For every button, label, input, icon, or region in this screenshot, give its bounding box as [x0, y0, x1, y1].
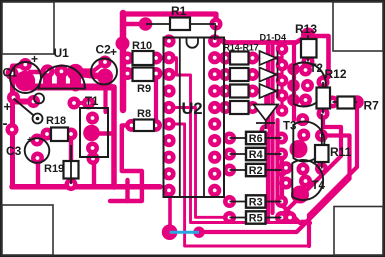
lead R3 right [266, 201, 282, 203]
lead R7 [333, 101, 358, 103]
svg-text:R10: R10 [132, 40, 152, 52]
pad U2 pin left 6 [162, 117, 175, 130]
pad U2 pin right 1 [208, 34, 221, 47]
wire R1 left pad to vertical [123, 22, 146, 27]
pad chord column a [287, 63, 300, 76]
svg-text:R12: R12 [325, 67, 347, 81]
wire top rail corner down (vertical x=123) [120, 13, 127, 110]
pad R9 right [150, 67, 163, 80]
wire R2-R6 vertical a [266, 46, 270, 222]
pad T1 pin 3 [86, 142, 99, 155]
wire R9-R8 vertical link [154, 74, 158, 126]
wire C3 bottom pad down [36, 158, 40, 186]
corner cutout top-left [2, 2, 54, 54]
pad R4 left [223, 148, 236, 161]
pad R5 left [223, 211, 236, 224]
svg-text:-: - [3, 115, 8, 132]
wire U1 pad1 stub [43, 71, 52, 86]
resistor R2 [246, 164, 266, 176]
pad U2 pin right 8 [208, 151, 221, 164]
pad T1 pin 1 [86, 112, 99, 125]
svg-text:U2: U2 [182, 100, 203, 118]
svg-text:+: + [27, 135, 33, 146]
wire diode row 3 [252, 89, 280, 93]
pad T3 pin 3 [290, 140, 308, 158]
wire U2 internal 3 [169, 124, 309, 246]
lead R12 [322, 82, 324, 114]
wire vertical to R9 left pad [123, 71, 128, 75]
svg-text:R7: R7 [364, 99, 380, 113]
svg-text:T3: T3 [283, 121, 296, 133]
svg-text:C2: C2 [96, 43, 112, 57]
wire diode via column vertical [280, 49, 283, 111]
pad R8 right [149, 119, 162, 132]
pad R5 far right [284, 211, 297, 224]
diode D3 [260, 84, 278, 98]
pad C1 center [15, 71, 35, 91]
svg-text:R5: R5 [249, 213, 263, 225]
pad U2 pin left 9 [162, 167, 175, 180]
pad U1 pin 1 [41, 64, 55, 78]
wire C1 pad to band [21, 80, 27, 87]
wire U1 to C2 bridge [77, 74, 104, 77]
svg-text:T1: T1 [85, 96, 99, 108]
pad R16 left [219, 85, 232, 98]
pad R10 right [150, 52, 163, 65]
wire C2 top pad to U1 pad [82, 62, 105, 71]
pad R3 left [223, 195, 236, 208]
pad C3 bottom [31, 152, 44, 165]
pad T4 pin 2 [299, 175, 312, 188]
pad R13 top [301, 28, 315, 42]
pad U2 pin right 3 [208, 68, 221, 81]
diode D4 [254, 105, 279, 130]
wire elbow mid diagonal [302, 179, 350, 222]
wire blue-jumper pad to right [199, 179, 350, 233]
wire U2 pad to solder pad below [168, 190, 172, 230]
pad U1 pin 2 [54, 64, 68, 78]
pad R4 right [275, 148, 288, 161]
pad T2 pin 2 [301, 79, 314, 92]
pad R6 right [275, 132, 288, 145]
svg-text:R6: R6 [249, 133, 263, 145]
pad U2 pin right 9 [208, 167, 221, 180]
pad left rail mid [6, 123, 19, 136]
wire chord column vertical [292, 45, 296, 120]
transistor T2 outline [294, 62, 326, 106]
wire R8 elbow path [110, 125, 142, 201]
pad U2 pin left 2 [162, 51, 175, 64]
pad via column 4 [276, 89, 289, 102]
corner cutout top-right [333, 2, 383, 51]
pad T3 pin 1 [296, 113, 309, 126]
pad R11 bottom [315, 162, 328, 175]
lead R13 [307, 35, 309, 62]
pad via column 3 [276, 74, 289, 87]
pad U1 pin 3 [67, 64, 84, 81]
pad R10 left [121, 52, 134, 65]
resistor R3 [246, 195, 266, 207]
wire U1 pad2 stub [57, 71, 66, 86]
wire band B left [13, 99, 34, 105]
capacitor C3 [25, 138, 50, 163]
wire diode row 2 [252, 73, 280, 77]
pad U2 pin right 2 [208, 51, 221, 64]
svg-text:R14-R17: R14-R17 [224, 43, 259, 53]
wire U1 pads link [30, 70, 44, 74]
corner cutout bottom-left [2, 205, 53, 255]
lead node minus to R18 [14, 99, 36, 118]
pad C3 top [31, 134, 44, 147]
pad solder jumper left [162, 224, 178, 240]
pad U2 pin left 8 [162, 151, 175, 164]
svg-text:R1: R1 [171, 4, 187, 18]
resistor R7 [338, 97, 355, 109]
pad R16 right [246, 85, 259, 98]
wire R11 top elbow down [322, 136, 350, 179]
resistor R19 [64, 161, 79, 179]
svg-text:C3: C3 [6, 144, 22, 158]
pad R9 left [121, 67, 134, 80]
pad U2 pin right 10 [208, 184, 221, 197]
pad R15 right [246, 68, 259, 81]
lead R5 right [266, 217, 282, 219]
pad ring node A [34, 94, 44, 104]
lead R6 right [266, 137, 282, 139]
pad ring node B [33, 114, 43, 124]
svg-text:R13: R13 [295, 22, 317, 36]
pad R12 top [317, 76, 330, 89]
wire T4 left trace [282, 150, 310, 223]
pad above T1 right [82, 97, 95, 110]
pad band B end [27, 95, 40, 108]
resistor R4 [246, 148, 266, 160]
wire R12 bottom elbow down [280, 114, 341, 218]
diode D1 [260, 51, 278, 65]
pad U2 pin left 4 [162, 84, 175, 97]
wire R2-R6 vertical b [270, 46, 274, 213]
svg-text:R4: R4 [249, 149, 263, 161]
pad U2 pin right 7 [208, 134, 221, 147]
wire left vertical rail [13, 66, 26, 187]
svg-text:R18: R18 [46, 115, 66, 127]
jumper wire (blue) [170, 231, 199, 234]
resistor R16 [230, 85, 249, 98]
resistor R17 [230, 101, 249, 114]
transistor T1 outline [80, 108, 108, 157]
transistor T4 outline [292, 160, 323, 200]
resistor R1 [170, 18, 190, 31]
pad U2 pin right 5 [208, 101, 221, 114]
wire main band under U1 [26, 84, 111, 91]
wire R5 right link [282, 216, 292, 219]
pad U2 pin left 10 [162, 184, 175, 197]
resistor R14 [230, 52, 249, 65]
wire U1 pad3 stub [70, 72, 81, 86]
svg-text:+: + [110, 45, 117, 59]
svg-text:R3: R3 [249, 197, 263, 209]
pad T2 pin 3 [299, 94, 312, 107]
resistor R10 [133, 51, 154, 65]
pad node on rail [116, 37, 130, 51]
svg-text:+: + [31, 52, 38, 66]
capacitor C1 [10, 62, 41, 93]
pad R18 left [41, 128, 54, 141]
wire R18 to R19 vertical [69, 134, 73, 184]
lead R4 right [266, 153, 282, 155]
lead R1 down to U2 [215, 25, 216, 40]
pad R17 left [219, 101, 232, 114]
wire R13 top to R12 top [309, 36, 329, 82]
pad R7 right [350, 95, 364, 109]
lead R3 left [230, 201, 247, 203]
pad U2 pin left 5 [162, 101, 175, 114]
pad C2 top [99, 56, 112, 69]
wire T1 pad link [98, 131, 114, 135]
pad via column 1 [276, 43, 289, 56]
lead R19 [70, 145, 72, 184]
pad big diode bottom [260, 124, 273, 137]
pad R17 right [246, 101, 259, 114]
pad R18 right [65, 128, 78, 141]
svg-text:D1-D4: D1-D4 [260, 33, 287, 43]
pad T2 pin 1 [299, 64, 312, 77]
pad R12 bottom [317, 107, 330, 120]
svg-text:C1: C1 [3, 68, 18, 80]
wire R7 right pad down diagonal [309, 102, 357, 246]
svg-text:T2: T2 [310, 63, 323, 75]
op-amp U2 outline [164, 38, 225, 198]
corner cutout bottom-right [334, 207, 383, 256]
svg-text:R19: R19 [44, 163, 64, 175]
pad U2 pin right 6 [208, 117, 221, 130]
lead R11 [321, 114, 323, 169]
wire T1 bottom pad down [92, 158, 96, 186]
wire U2 internal 1 [169, 58, 302, 223]
svg-text:R11: R11 [330, 145, 352, 159]
pad U2 pin left 7 [162, 134, 175, 147]
wire bottom jog left of U2 [125, 180, 129, 201]
pad R8 left [125, 119, 138, 132]
svg-text:R2: R2 [249, 165, 263, 177]
resistor R18 [51, 128, 68, 142]
pad R19 bottom [65, 178, 78, 191]
svg-text:+: + [4, 99, 12, 114]
wire R13 bottom to T2 [306, 62, 309, 71]
wire bottom-left horizontal rail [12, 184, 160, 190]
pad via column 5 [276, 104, 289, 117]
wire diode top link [264, 97, 268, 104]
pad C1 positive [19, 58, 32, 71]
pad node left of T4 a [280, 161, 293, 174]
lead R6 left [230, 137, 247, 139]
resistor R15 [230, 68, 249, 81]
pad left rail top [6, 67, 19, 80]
pad chord column b [287, 79, 300, 92]
svg-text:U1: U1 [54, 46, 70, 60]
resistor R11 [315, 145, 329, 162]
pad U2 pin left 3 [162, 68, 175, 81]
pad U2 pin right 4 [208, 84, 221, 97]
resistor R13 [301, 39, 317, 58]
resistor R12 [317, 88, 331, 109]
pad C2 bottom [97, 69, 113, 85]
wire T3 region vertical [275, 120, 279, 200]
pad R11 top [315, 129, 328, 142]
svg-text:R8: R8 [137, 108, 151, 120]
wire top rail to R1 right pad [124, 14, 216, 24]
pad node left of T4 b [280, 177, 293, 190]
svg-text:T4: T4 [312, 180, 326, 192]
resistor R6 [246, 132, 266, 144]
pad T3 pin 2 [297, 129, 310, 142]
wire band corner down right of T1 [111, 87, 117, 187]
resistor R5 [246, 211, 266, 223]
pad R5 right [275, 211, 288, 224]
lead R5 left [230, 217, 247, 219]
transistor T3 outline [293, 122, 324, 162]
pad solder jumper right [193, 227, 204, 238]
svg-text:R9: R9 [137, 83, 151, 95]
lead R2 left [230, 169, 247, 171]
transistor U1 outline [39, 66, 85, 89]
pad chord column c [287, 94, 300, 107]
pad T1 pin 4 [87, 152, 100, 165]
resistor R9 [133, 68, 154, 82]
lead R2 right [266, 169, 282, 171]
pad R2 right [275, 164, 288, 177]
lead R1 left [146, 23, 170, 25]
lead R4 left [230, 153, 247, 155]
pad R3 right [275, 195, 288, 208]
diode D2 [260, 68, 278, 82]
pad above T1 left [68, 97, 81, 110]
wire rail U2 pin1 to R13 [215, 37, 306, 43]
wire R10 right pad to U2 [156, 56, 168, 59]
pad R13 bottom [302, 55, 315, 68]
pad node minus [7, 91, 20, 104]
pad R1 right [210, 18, 223, 31]
pad U2 pin left 1 [162, 34, 175, 47]
wire T1 to U2 pin row [112, 180, 117, 187]
resistor R8 [134, 120, 154, 132]
pad R1 left [139, 17, 153, 31]
pad R14 right [246, 52, 259, 65]
pad T1 pin 2 [83, 125, 100, 142]
pad R6 left [223, 132, 236, 145]
wire C2 bottom pad down [103, 77, 107, 113]
pad R2 left [223, 164, 236, 177]
pad T4 pin 3 [291, 186, 309, 204]
capacitor C2 [91, 59, 117, 85]
pad R7 left [326, 96, 339, 109]
lead R1 right [190, 23, 216, 25]
wire vertical to R10 left pad [123, 56, 129, 60]
pad T4 pin 1 [297, 163, 310, 176]
wire diode row 1 [252, 56, 280, 60]
pad R14 left [219, 52, 232, 65]
wire U2 internal 2 [169, 108, 230, 218]
wire link above T1 [74, 101, 89, 105]
pad via column 2 [276, 59, 289, 72]
pad R15 left [219, 68, 232, 81]
